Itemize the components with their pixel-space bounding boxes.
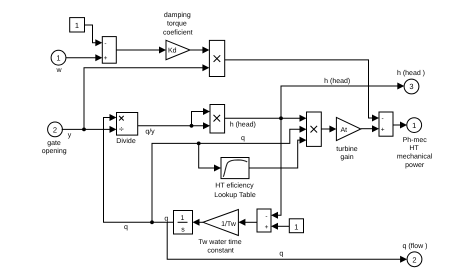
svg-text:3: 3 <box>409 82 413 91</box>
svg-text:mechanical: mechanical <box>397 153 433 161</box>
constant block 1 (top) <box>70 18 85 32</box>
wire Sum1 to Kd <box>116 49 160 51</box>
svg-text:1/Tw: 1/Tw <box>221 220 237 228</box>
gain At triangle (turbine gain) <box>336 117 360 140</box>
wire constant 1 to Sum3 plus <box>278 225 290 227</box>
wire Sum3 to 1/Tw <box>245 221 257 223</box>
wire port2 y to Divide bottom <box>62 128 111 130</box>
svg-text:1: 1 <box>412 121 416 130</box>
gain 1/Tw triangle (points left) <box>203 210 238 236</box>
svg-text:h (head ): h (head ) <box>397 69 425 77</box>
svg-text:y: y <box>68 132 72 139</box>
svg-text:Lookup Table: Lookup Table <box>214 191 256 199</box>
constant block 1 (bottom) <box>289 219 303 233</box>
arrow into Divide bottom <box>110 126 117 133</box>
svg-text:HT eficiency: HT eficiency <box>215 182 254 190</box>
arrow into Product1 input2 <box>202 64 209 71</box>
wire q to output port 2 <box>167 222 400 259</box>
gain Kd triangle <box>166 40 190 59</box>
wire Product1 to Sum2 minus <box>225 60 373 118</box>
svg-text:At: At <box>341 127 348 134</box>
output port 1 circle (Ph-mec) <box>407 118 422 133</box>
input port 1 circle (w) <box>51 50 66 65</box>
wire lookup to Product3 input3 <box>249 140 301 168</box>
arrow into Divide top <box>110 114 117 121</box>
arrow into 1/Tw (points left) <box>238 219 245 226</box>
integrator block 1/s <box>174 211 193 235</box>
wire q branch to Product3 input2 <box>152 129 301 222</box>
junction dot h head <box>279 116 283 120</box>
svg-text:s: s <box>181 226 185 233</box>
sum block Sum2 (right) <box>379 112 393 136</box>
arrow into Product3 input1 <box>300 115 307 122</box>
svg-text:Divide: Divide <box>116 137 136 145</box>
svg-text:coeficient: coeficient <box>163 28 193 36</box>
svg-text:2: 2 <box>412 255 416 264</box>
svg-text:1: 1 <box>75 21 79 30</box>
junction dot y line <box>82 127 86 131</box>
svg-text:Kd: Kd <box>168 47 177 55</box>
wire constant1 to Sum1 minus <box>85 25 97 43</box>
junction dot q feedback <box>150 220 154 224</box>
arrow into Sum2 plus <box>372 125 379 132</box>
arrow into Product3 input2 <box>300 126 307 133</box>
output port 2 circle (q flow) <box>407 252 422 267</box>
svg-text:1: 1 <box>181 215 185 222</box>
wire 1/Tw to integrator <box>199 221 203 223</box>
svg-text:÷: ÷ <box>119 124 124 134</box>
arrow into At <box>329 126 336 133</box>
wire h head down to Sum3 minus <box>278 118 282 215</box>
svg-text:constant: constant <box>207 248 234 255</box>
svg-text:+: + <box>265 224 269 231</box>
arrow into Kd <box>159 47 166 54</box>
svg-text:opening: opening <box>42 147 67 155</box>
arrow into integrator (points left) <box>193 219 200 226</box>
svg-text:Tw water time: Tw water time <box>198 238 241 246</box>
product block Product3 (3 inputs) <box>307 112 322 146</box>
lookup table block HT eficiency <box>221 158 249 179</box>
svg-text:HT: HT <box>409 145 419 152</box>
wire Product3 to At <box>321 128 330 130</box>
svg-text:q: q <box>279 250 283 257</box>
svg-text:torque: torque <box>167 21 187 28</box>
arrow into output port 2 <box>400 256 407 263</box>
svg-text:q: q <box>124 224 128 231</box>
wire h head to output port 3 <box>281 86 398 118</box>
arrow into Product1 input1 <box>202 47 209 54</box>
svg-text:Ph-mec: Ph-mec <box>403 136 428 144</box>
wire Sum2 to output port 1 <box>393 124 401 126</box>
wire q feedback to Divide top <box>104 118 174 223</box>
svg-text:1: 1 <box>56 53 60 62</box>
junction dot divide output <box>190 124 194 128</box>
output port 3 circle (h head) <box>404 79 419 94</box>
svg-text:1: 1 <box>294 222 298 231</box>
arrowheads <box>82 39 407 263</box>
svg-text:h (head): h (head) <box>230 120 256 128</box>
svg-text:-: - <box>265 213 267 220</box>
arrow into Sum3 plus (points left) <box>271 223 278 230</box>
wire q branch to lookup table <box>199 143 215 168</box>
arrow into Sum1 minus <box>95 39 102 46</box>
svg-text:damping: damping <box>164 11 191 19</box>
svg-text:-: - <box>382 115 384 122</box>
sum block Sum3 (bottom) <box>257 209 271 232</box>
svg-text:h (head): h (head) <box>324 77 350 85</box>
arrow into output port 3 <box>397 83 404 90</box>
svg-text:w: w <box>55 67 62 74</box>
svg-text:gain: gain <box>340 153 353 161</box>
sum block Sum1 <box>102 37 116 64</box>
junction dot q to lookup <box>197 142 201 146</box>
svg-text:+: + <box>104 55 108 62</box>
wire At to Sum2 plus <box>361 128 373 130</box>
arrow into Sum1 plus <box>95 54 102 61</box>
svg-text:gate: gate <box>47 140 61 147</box>
wire Divide to Product2 inputs <box>138 112 204 126</box>
svg-text:q: q <box>241 135 245 142</box>
svg-text:q (flow ): q (flow ) <box>403 242 428 250</box>
product block Product2 (head) <box>210 105 225 134</box>
wire Product2 h to Product3 input1 <box>225 117 301 119</box>
arrow into Product2 input bottom <box>203 122 210 129</box>
svg-text:-: - <box>104 40 106 47</box>
svg-text:+: + <box>381 126 385 133</box>
input port 2 circle (y) <box>48 122 63 137</box>
arrow into lookup table <box>214 165 221 172</box>
arrow into Product3 input3 <box>300 137 307 144</box>
divide block <box>117 113 138 136</box>
svg-text:power: power <box>405 162 425 169</box>
arrow into Sum3 minus (points left) <box>271 212 278 219</box>
svg-text:turbine: turbine <box>336 145 358 153</box>
wire y branch to Product1 input2 <box>84 68 203 130</box>
arrow into Product2 input top <box>203 108 210 115</box>
svg-text:q: q <box>164 216 168 223</box>
wire port1 w to Sum1 plus <box>66 57 96 59</box>
product block Product1 (damping) <box>209 40 224 76</box>
wire Kd to Product1 input1 <box>190 49 203 51</box>
svg-text:2: 2 <box>53 125 57 134</box>
arrow into output port 1 <box>400 122 407 129</box>
arrow into Sum2 minus <box>372 115 379 122</box>
svg-text:q/y: q/y <box>145 128 155 136</box>
